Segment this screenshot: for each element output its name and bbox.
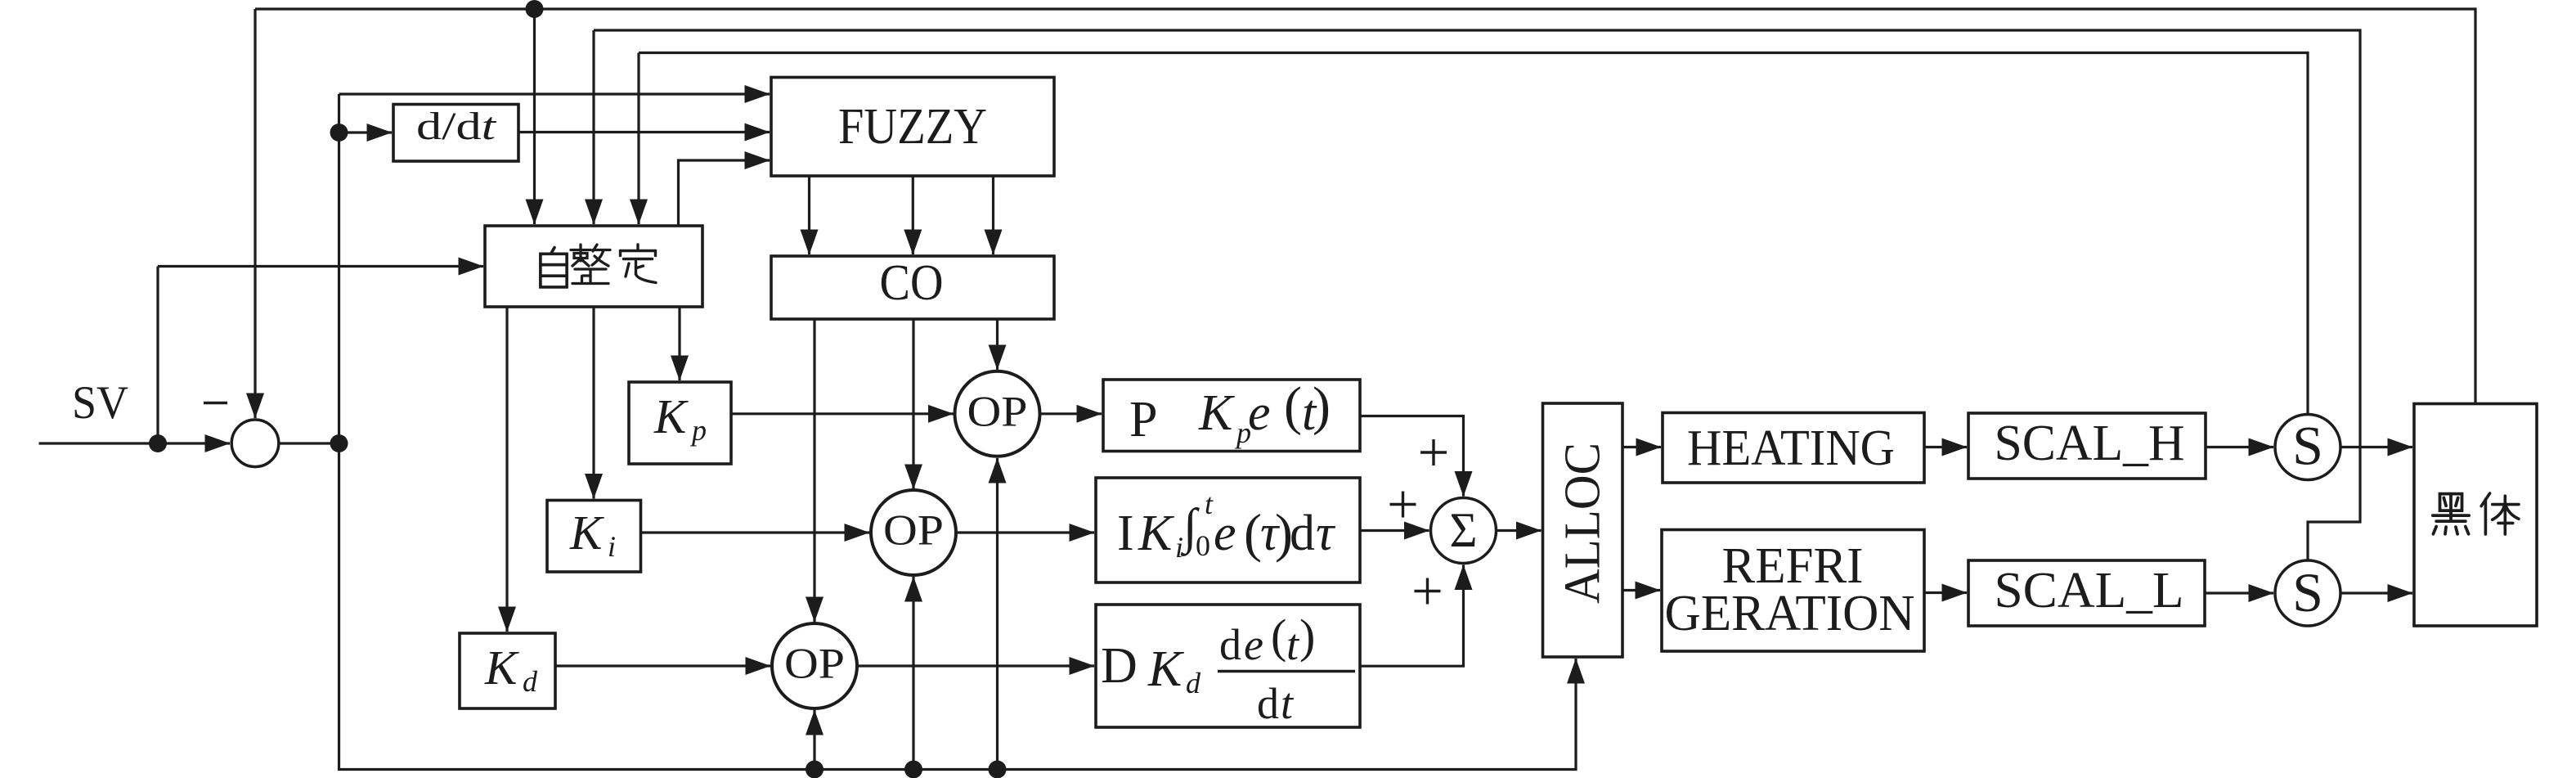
svg-text:): ): [1299, 609, 1315, 663]
svg-text:e: e: [1248, 385, 1271, 441]
svg-text:S: S: [2292, 561, 2323, 623]
svg-text:OP: OP: [784, 641, 845, 688]
svg-text:K: K: [569, 506, 604, 560]
svg-text:K: K: [484, 641, 519, 695]
svg-text:(: (: [1284, 376, 1302, 436]
svg-text:GERATION: GERATION: [1665, 586, 1915, 641]
svg-text:(: (: [1244, 504, 1262, 564]
svg-text:t: t: [1286, 620, 1300, 669]
svg-text:i: i: [1175, 531, 1183, 564]
svg-text:S: S: [2292, 415, 2323, 477]
svg-text:d: d: [1186, 667, 1201, 699]
svg-text:d: d: [523, 665, 538, 698]
svg-text:0: 0: [1196, 529, 1210, 562]
svg-text:e: e: [1244, 620, 1263, 669]
svg-text:τ: τ: [1316, 506, 1336, 561]
svg-text:D: D: [1101, 638, 1138, 694]
svg-text:(: (: [1271, 609, 1286, 663]
svg-text:P: P: [1129, 392, 1157, 447]
svg-text:d: d: [1290, 506, 1315, 561]
svg-text:SV: SV: [72, 377, 128, 429]
svg-text:): ): [1313, 376, 1331, 436]
svg-text:d/dt: d/dt: [416, 105, 497, 148]
svg-text:HEATING: HEATING: [1687, 420, 1895, 476]
svg-text:d: d: [1219, 620, 1241, 669]
svg-text:K: K: [1198, 385, 1236, 441]
svg-text:FUZZY: FUZZY: [838, 99, 987, 155]
svg-text:ALLOC: ALLOC: [1555, 443, 1611, 604]
svg-text:CO: CO: [880, 255, 944, 311]
svg-text:OP: OP: [967, 389, 1028, 436]
svg-text:OP: OP: [883, 507, 944, 555]
svg-text:t: t: [1205, 488, 1214, 520]
svg-text:Σ: Σ: [1450, 503, 1478, 557]
svg-text:d: d: [1257, 679, 1279, 728]
svg-text:K: K: [1138, 506, 1175, 561]
svg-text:I: I: [1117, 506, 1134, 561]
svg-text:K: K: [1147, 641, 1185, 697]
svg-text:e: e: [1214, 506, 1236, 561]
svg-text:p: p: [689, 414, 707, 447]
svg-text:t: t: [1281, 679, 1295, 728]
svg-text:SCAL_L: SCAL_L: [1995, 563, 2184, 618]
svg-text:K: K: [653, 389, 689, 443]
svg-text:i: i: [608, 530, 616, 563]
svg-text:SCAL_H: SCAL_H: [1995, 416, 2185, 471]
